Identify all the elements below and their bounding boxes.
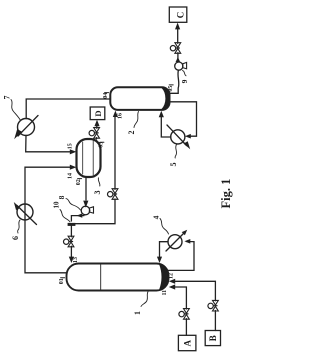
svg-text:A: A (183, 340, 193, 347)
wire 12: from box B riser into vessel 1 right (175, 281, 216, 301)
svg-text:11: 11 (162, 290, 168, 296)
wire 13: valve into vessel 1 top (70, 246, 72, 257)
wire: vessel 1 right to exchanger 4 (up leg) (168, 242, 194, 271)
svg-text:02: 02 (76, 179, 82, 185)
svg-text:7: 7 (3, 96, 12, 100)
vessel 2 (horizontal drum, top) (110, 87, 169, 110)
label 01 (59, 278, 65, 284)
pump 8 (81, 206, 93, 215)
wire 03: vessel 3 top to valve 03 (96, 138, 98, 139)
pump 9 (175, 62, 187, 70)
label 10 (53, 201, 71, 222)
label 3 (93, 178, 102, 195)
svg-text:01: 01 (59, 278, 65, 284)
wire 11: from box A riser into vessel 1 right (175, 287, 187, 309)
box D (90, 107, 105, 120)
wire 05: vessel 2 right outlet to pump 9 (169, 70, 179, 93)
wire: valve C into box C (177, 29, 179, 44)
wire: junction to line 16 riser (71, 199, 115, 224)
valve 13 (64, 236, 74, 247)
box B (205, 331, 220, 346)
svg-text:D: D (93, 110, 103, 116)
svg-text:6: 6 (11, 236, 20, 240)
wire 15: exchanger 7 to vessel 3 (26, 135, 71, 151)
valve 16 (108, 189, 118, 200)
wire: junction down to valve 13 (70, 226, 72, 237)
svg-text:1: 1 (133, 311, 142, 315)
svg-text:03: 03 (99, 142, 105, 148)
vessel 3 (small drum) (77, 139, 101, 177)
wire 04: vessel 2 left outlet to exchanger 7 (26, 99, 110, 119)
wire: exchanger 4 return into vessel 1 top (down leg) (160, 242, 169, 258)
label 04 (103, 93, 109, 99)
svg-text:C: C (176, 12, 186, 19)
svg-text:4: 4 (152, 215, 161, 219)
node 10 (junction) (68, 223, 76, 226)
wire 14: exchanger 6 to vessel 3 (25, 167, 71, 220)
box C (169, 7, 187, 22)
heat exchanger 6 (14, 202, 37, 225)
svg-text:5: 5 (169, 163, 178, 167)
svg-text:15: 15 (68, 143, 74, 149)
svg-text:B: B (208, 335, 218, 341)
wire 01: vessel 1 left outlet to exchanger 6 (25, 220, 67, 273)
svg-text:16: 16 (118, 113, 124, 119)
wire: valve A to box A (185, 319, 187, 336)
svg-text:13: 13 (73, 257, 79, 263)
label 02 (76, 179, 82, 186)
heat exchanger 5 (167, 125, 190, 149)
svg-text:12: 12 (168, 273, 174, 279)
svg-text:Fig. 1: Fig. 1 (219, 179, 233, 209)
wire: pump 8 discharge to junction 10 (71, 216, 84, 221)
label 4 (152, 215, 169, 234)
svg-text:8: 8 (57, 195, 66, 199)
wire: valve 03 into box D (96, 126, 98, 129)
svg-text:04: 04 (103, 93, 109, 99)
label 5 (169, 145, 178, 167)
svg-text:2: 2 (127, 131, 136, 135)
label 9 (180, 71, 189, 84)
box A (178, 335, 196, 350)
svg-text:3: 3 (93, 191, 102, 195)
svg-text:05: 05 (168, 86, 174, 92)
svg-text:9: 9 (180, 79, 189, 83)
wire: vessel 2 right to exchanger 5 (down leg) (169, 102, 197, 136)
label 1 (133, 292, 148, 315)
heat exchanger 7 (14, 116, 38, 140)
wire 16: riser into vessel 2 bottom (114, 116, 116, 189)
valve C (170, 43, 180, 54)
label 03 (99, 142, 105, 148)
wire: valve B to box B (214, 311, 216, 331)
wire 02: vessel 3 bottom to pump 8 (85, 178, 87, 201)
label 7 (3, 96, 21, 121)
label 05 (168, 85, 174, 92)
wire: pump 9 to valve C (177, 53, 179, 62)
valve B (208, 300, 218, 311)
label 2 (127, 112, 139, 135)
wire: exchanger 5 return into vessel 2 bottom (up leg) (161, 116, 171, 137)
valve 03 (89, 128, 99, 139)
label 8 (57, 195, 81, 210)
svg-text:10: 10 (53, 201, 61, 209)
vessel 1 (large drum, bottom) (67, 264, 169, 291)
svg-text:14: 14 (68, 173, 74, 179)
label 6 (11, 220, 20, 240)
valve A (179, 309, 189, 320)
heat exchanger 4 (166, 230, 187, 251)
